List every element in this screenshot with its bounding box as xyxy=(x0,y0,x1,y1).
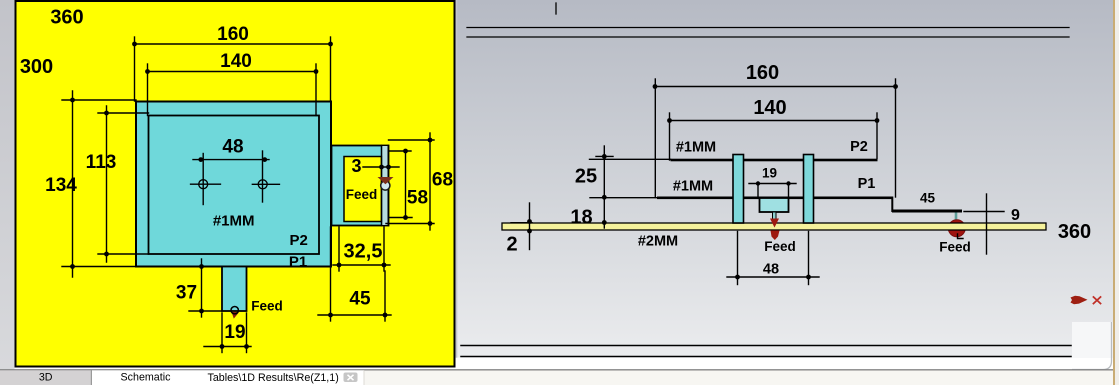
svg-text:#2MM: #2MM xyxy=(638,234,678,250)
white strip above tab bar (left) xyxy=(15,368,456,371)
dimension 113 xyxy=(98,106,149,262)
feed point crosshair 1 xyxy=(191,180,221,189)
svg-text:48: 48 xyxy=(763,262,779,278)
outer patch P1 (cyan) xyxy=(136,102,331,267)
svg-text:32,5: 32,5 xyxy=(344,241,383,263)
dimension 140 xyxy=(148,64,317,116)
svg-text:Schematic: Schematic xyxy=(121,372,172,384)
svg-text:P1: P1 xyxy=(858,176,876,192)
dimension 9 line xyxy=(964,211,1004,213)
side view gradient background xyxy=(456,0,1114,358)
svg-text:9: 9 xyxy=(1011,207,1020,224)
svg-text:68: 68 xyxy=(432,170,453,191)
feed line 45 segment xyxy=(892,210,962,213)
svg-text:#1MM: #1MM xyxy=(673,179,713,195)
dimension 45 (left panel) xyxy=(318,227,391,321)
feed port red triangle xyxy=(232,312,240,319)
top boundary line 1 xyxy=(467,27,1069,29)
white strip above tab bar (right) xyxy=(456,358,1119,371)
svg-text:Feed: Feed xyxy=(939,240,971,255)
feed point crosshair 2 xyxy=(252,180,279,189)
svg-text:140: 140 xyxy=(220,51,252,72)
svg-text:360: 360 xyxy=(1058,221,1091,243)
svg-text:48: 48 xyxy=(222,137,243,158)
dimension 25 / 18 xyxy=(596,146,613,228)
parasitic box inner (yellow) xyxy=(344,157,382,222)
feed stem xyxy=(773,212,777,223)
dimension 160 xyxy=(135,37,332,101)
P1 left extension line xyxy=(590,197,657,199)
svg-text:#1MM: #1MM xyxy=(213,213,255,230)
dimension 160 (side) xyxy=(655,79,897,198)
dimension 2 (substrate thickness) xyxy=(529,203,531,250)
svg-text:360: 360 xyxy=(50,7,83,29)
microstrip through box (pale band) xyxy=(382,146,387,225)
inner patch P2 outline xyxy=(149,116,320,255)
view corner frame line xyxy=(1072,322,1112,370)
microstrip through box (vertical lines) xyxy=(381,146,383,226)
feed red arrow (center) xyxy=(770,219,779,228)
svg-text:Tables\1D Results\Re(Z1,1): Tables\1D Results\Re(Z1,1) xyxy=(208,372,339,384)
top boundary line 2 xyxy=(467,36,1069,38)
patch P1 side line xyxy=(657,197,893,200)
svg-text:#1MM: #1MM xyxy=(676,140,716,156)
dimension 58 xyxy=(389,151,413,218)
dimension 19 (side) xyxy=(749,184,796,197)
red axis arrow icon xyxy=(1071,296,1088,304)
view corner bottom right white notch xyxy=(1072,322,1113,358)
tab bar top border xyxy=(0,369,1113,371)
svg-text:134: 134 xyxy=(45,175,77,196)
svg-text:160: 160 xyxy=(746,62,779,84)
left toolbar strip xyxy=(0,0,15,385)
dimension 134 xyxy=(62,91,136,277)
svg-text:Feed: Feed xyxy=(764,239,796,254)
svg-text:19: 19 xyxy=(762,166,777,181)
panel boundary shade xyxy=(456,0,458,357)
parasitic box outer (cyan frame) xyxy=(332,146,389,226)
feed triangle in box xyxy=(378,177,394,184)
top tick mark xyxy=(555,3,557,14)
svg-text:300: 300 xyxy=(20,56,53,78)
svg-text:P2: P2 xyxy=(290,232,308,249)
side extension lines cluster xyxy=(590,159,671,197)
svg-text:Feed: Feed xyxy=(346,187,378,202)
feed via (right) xyxy=(955,212,958,223)
svg-text:45: 45 xyxy=(349,289,371,310)
feed port circle on stub xyxy=(231,307,238,314)
via post 1 xyxy=(733,155,744,224)
bottom boundary line 1 xyxy=(461,345,1071,347)
3D view yellow background xyxy=(16,1,455,367)
dimension 3 (strip width in box) xyxy=(363,166,399,168)
svg-text:140: 140 xyxy=(753,97,786,119)
Schematic + Tables tabs white area xyxy=(92,370,364,385)
patch P2 side line xyxy=(671,159,878,162)
P2 left extension line xyxy=(590,158,671,160)
svg-text:Feed: Feed xyxy=(251,299,283,314)
feed red circle (right) xyxy=(948,220,965,237)
feed box side view xyxy=(760,198,789,212)
bottom boundary line 2 xyxy=(461,356,1071,358)
feed circle in box xyxy=(381,181,390,190)
svg-text:3: 3 xyxy=(351,156,361,176)
svg-text:37: 37 xyxy=(176,283,197,304)
svg-text:58: 58 xyxy=(407,188,428,209)
svg-text:3D: 3D xyxy=(39,372,53,384)
tab close button xyxy=(344,373,358,383)
dimension 140 (side) xyxy=(670,113,878,160)
right window edge light margin xyxy=(1115,0,1119,385)
dimension 48 xyxy=(193,151,269,205)
svg-text:113: 113 xyxy=(86,152,117,173)
dimension 68 xyxy=(386,133,434,230)
via post 2 xyxy=(804,155,814,224)
svg-text:45: 45 xyxy=(920,191,936,206)
3D tab (selected) xyxy=(0,370,92,385)
dimension 32,5 xyxy=(333,227,390,271)
svg-text:19: 19 xyxy=(224,322,245,343)
dimension 19 (stub width) xyxy=(204,313,251,353)
right window edge tan line xyxy=(1113,0,1115,385)
vertical line right of feed xyxy=(986,194,988,254)
feed stub (cyan) xyxy=(222,267,247,312)
red x icon xyxy=(1094,297,1101,304)
dimension 37 xyxy=(189,259,222,317)
small tick under red circle xyxy=(958,234,964,239)
ground strip (substrate) xyxy=(502,223,1046,230)
svg-text:P2: P2 xyxy=(850,139,868,155)
svg-text:2: 2 xyxy=(506,234,517,256)
svg-text:25: 25 xyxy=(575,166,597,188)
svg-text:160: 160 xyxy=(217,24,249,45)
P1 step vertical xyxy=(891,198,893,212)
svg-text:18: 18 xyxy=(570,207,592,229)
svg-text:P1: P1 xyxy=(289,254,307,271)
tab bar background xyxy=(0,370,1113,385)
dimension 48 (side) xyxy=(727,232,819,285)
